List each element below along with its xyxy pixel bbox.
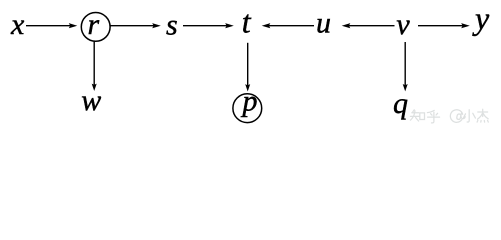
watermark char zhi — [410, 110, 419, 121]
svg-text:y: y — [472, 0, 490, 36]
arrowhead v to y — [461, 23, 470, 28]
watermark at-sign — [450, 110, 465, 123]
arrowhead r to w — [92, 84, 97, 91]
wire r to w — [93, 41, 95, 85]
arrowhead t to p — [245, 84, 250, 91]
svg-text:r: r — [88, 8, 100, 41]
watermark char hu — [427, 110, 439, 123]
wire s to t — [183, 25, 227, 27]
svg-text:t: t — [242, 4, 252, 40]
svg-text:v: v — [396, 8, 410, 41]
arrowhead x to r — [69, 23, 78, 28]
svg-text:p: p — [241, 85, 258, 118]
wire u to t — [268, 25, 314, 27]
wire v to u — [348, 25, 395, 27]
watermark zhihu @xiaojie — [410, 109, 488, 123]
arrowhead r to s — [152, 23, 161, 28]
watermark char jie — [477, 109, 488, 122]
arrowhead v to u — [342, 23, 351, 28]
svg-text:q: q — [393, 87, 408, 120]
wire v to q — [404, 42, 406, 85]
arrowhead s to t — [225, 23, 234, 28]
arrowhead u to t — [262, 23, 271, 28]
watermark char xiao — [463, 110, 475, 122]
wire r to s — [110, 25, 154, 27]
node r circle — [81, 13, 110, 42]
svg-text:u: u — [316, 7, 331, 40]
wire x to r — [26, 25, 72, 27]
svg-text:x: x — [10, 8, 25, 41]
arrowhead v to q — [403, 84, 408, 91]
svg-text:w: w — [81, 84, 101, 117]
node p circle — [233, 94, 262, 123]
svg-text:s: s — [166, 9, 178, 42]
wire t to p — [247, 43, 249, 86]
wire v to y — [418, 25, 463, 27]
